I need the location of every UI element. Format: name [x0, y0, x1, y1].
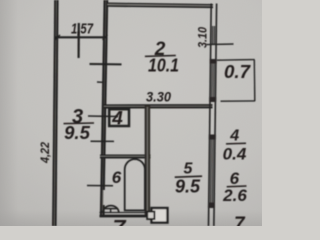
svg-text:4: 4: [229, 128, 239, 145]
bathroom 6 top wall: [100, 155, 151, 157]
label: room 2 fraction line: [145, 55, 176, 58]
svg-text:6: 6: [230, 169, 240, 188]
wire: small tick on room-2 left wall: [97, 81, 104, 83]
svg-text:1,57: 1,57: [71, 22, 94, 38]
dimension line 1.57 with end ticks: [56, 36, 108, 38]
wire: left outer wall of room 3 (double line w/ gray core): [54, 0, 56, 226]
vent box near kitchen wall bottom: [152, 208, 168, 223]
svg-text:2.6: 2.6: [222, 186, 247, 205]
window hatch balcony door: [211, 63, 213, 97]
svg-text:7: 7: [234, 214, 246, 226]
vent box tab: [147, 212, 154, 219]
svg-text:9.5: 9.5: [64, 122, 90, 143]
balcony outline: [217, 59, 255, 62]
wall solid block a: [210, 59, 217, 64]
bathtub: [125, 159, 145, 210]
wire: right wall inner line: [208, 3, 211, 225]
label: kitchen 5 fraction line: [175, 176, 202, 177]
wire: leader into closet 4: [88, 115, 118, 118]
label: room 3 fraction line: [64, 122, 95, 125]
closet 4 box: [109, 109, 129, 126]
bathroom 6 bottom wall: [100, 212, 152, 214]
svg-text:10.1: 10.1: [148, 56, 179, 76]
right outer wall group (with window hatches): [208, 3, 218, 226]
svg-text:4: 4: [111, 109, 123, 130]
wall solid block d: [208, 202, 215, 208]
window hatch upper: [211, 26, 213, 44]
sink: [103, 206, 119, 212]
wire: dimension tick 3.10: [206, 43, 234, 46]
paper background: [0, 0, 262, 226]
wire: leader crossing room-2 left wall: [90, 63, 122, 65]
wire: wall between room 2 and kitchen 5 (double line w/ gray core): [104, 105, 213, 107]
svg-text:3.10: 3.10: [195, 27, 209, 48]
wire: short vertical stroke through 1.57 label: [77, 23, 79, 58]
svg-text:4,22: 4,22: [38, 142, 52, 164]
wire: leader from label 6: [87, 185, 113, 187]
svg-text:3.30: 3.30: [146, 90, 171, 105]
svg-text:5: 5: [184, 161, 194, 178]
wire: internal wall between room 3 and rooms 2/4/6 (double line w/ gray core): [102, 0, 106, 217]
wall solid block c: [209, 134, 216, 139]
svg-text:0.4: 0.4: [223, 145, 247, 164]
wire: room 2 top outer wall: [108, 4, 214, 5]
svg-text:0.7: 0.7: [224, 61, 252, 82]
svg-text:6: 6: [112, 168, 122, 187]
wire: leader from label 9.5: [91, 140, 115, 142]
wall solid block b: [209, 97, 216, 102]
window hatch kitchen: [210, 139, 213, 203]
svg-text:9.5: 9.5: [175, 176, 201, 196]
svg-text:7: 7: [113, 217, 127, 227]
wire: right wall outer line: [214, 4, 217, 226]
wire: wall between bathroom/hall and kitchen 5: [145, 106, 151, 218]
